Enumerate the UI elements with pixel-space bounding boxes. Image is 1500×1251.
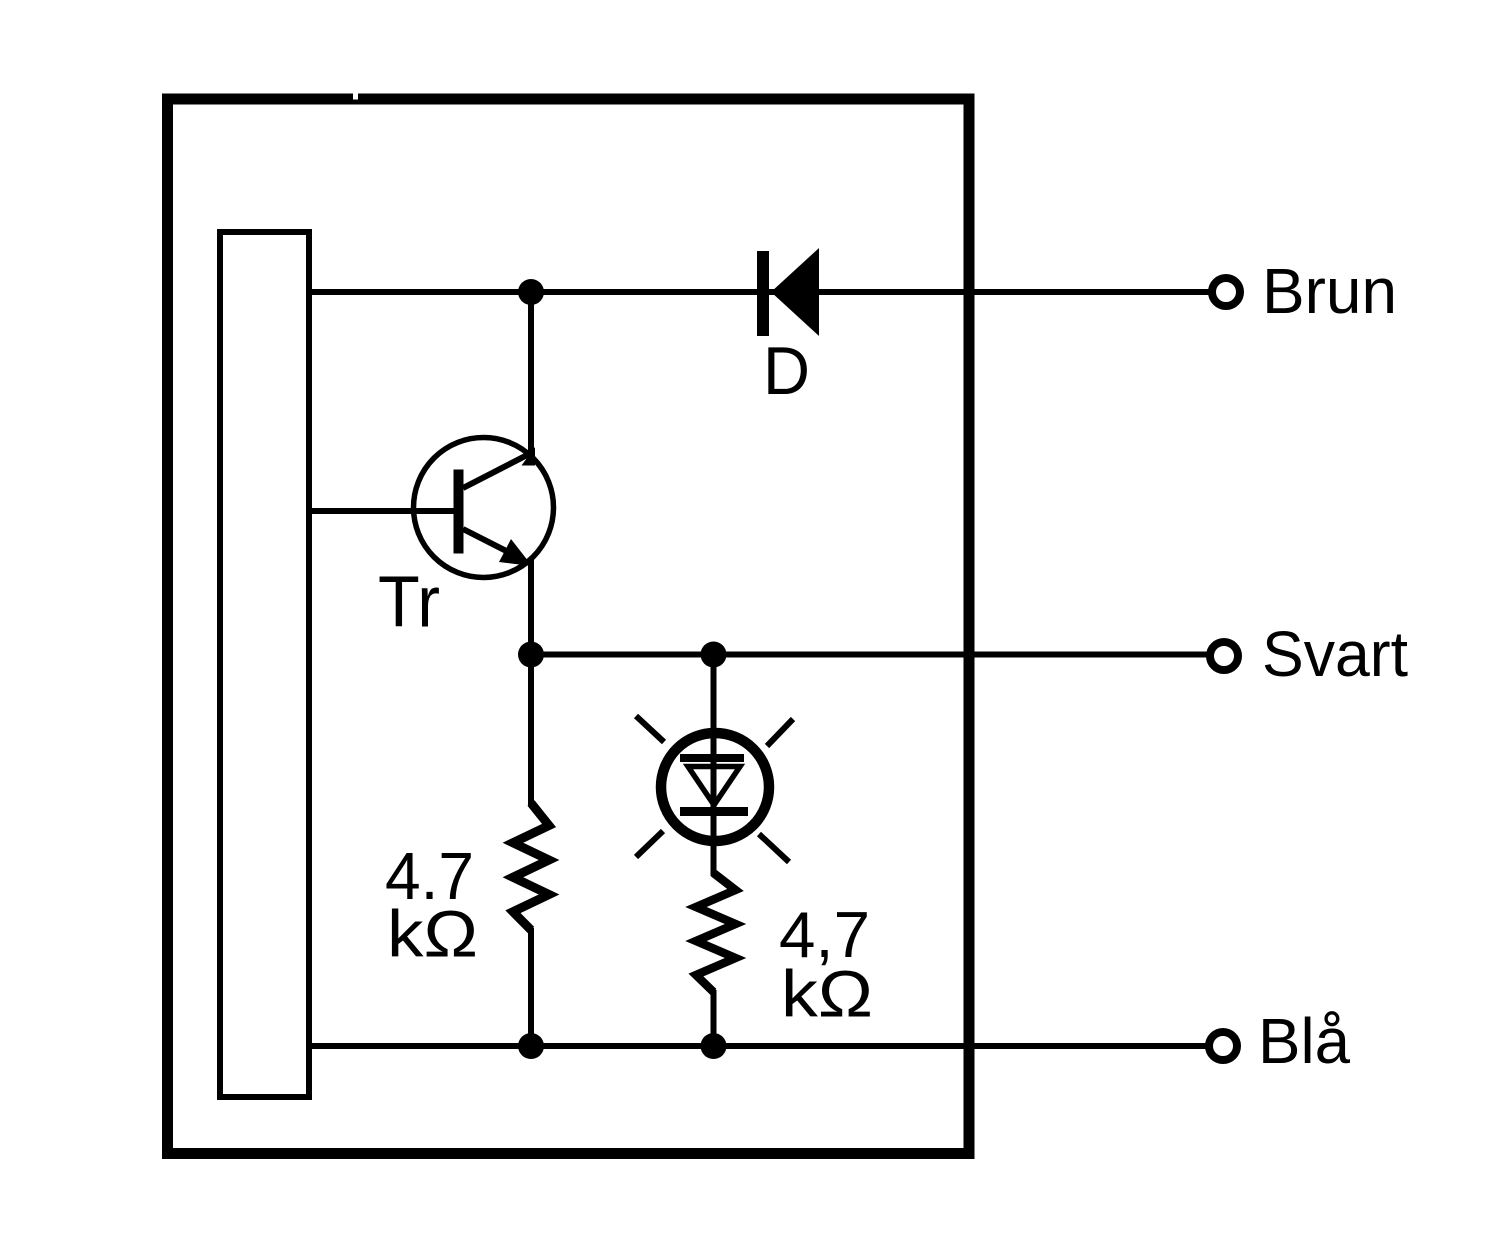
junction at right resistor/Bla: [701, 1033, 727, 1059]
junction at emitter/Svart: [518, 642, 544, 668]
wire LED branch vertical: [711, 655, 717, 877]
LED ray top-left: [636, 716, 664, 742]
LED cathode bar: [680, 807, 748, 816]
diode D triangle: [771, 248, 819, 336]
svg-text:Blå: Blå: [1258, 1005, 1350, 1077]
svg-text:Tr: Tr: [378, 563, 440, 643]
wire collector vertical: [528, 292, 534, 458]
junction at LED/Svart: [701, 642, 727, 668]
transistor emitter diagonal: [463, 529, 522, 559]
resistor right 4.7k zigzag: [696, 873, 736, 992]
terminal Brun: [1212, 278, 1240, 306]
transistor Tr circle: [414, 438, 554, 578]
wire Svart horizontal: [531, 652, 1212, 658]
svg-text:D: D: [763, 333, 810, 409]
LED triangle: [688, 767, 740, 806]
wire Brun horizontal: [311, 289, 1212, 295]
wire emitter vertical: [528, 558, 534, 806]
wire Bla horizontal: [311, 1043, 1212, 1049]
svg-text:kΩ: kΩ: [387, 897, 478, 971]
LED ray bottom-right: [759, 834, 789, 862]
enclosure box: [168, 99, 970, 1154]
junction at left resistor/Bla: [518, 1033, 544, 1059]
transistor base bar: [454, 470, 464, 554]
wire below right resistor: [711, 990, 717, 1046]
LED anode bar: [680, 754, 744, 762]
notch on top border: [353, 93, 358, 100]
sensor element rectangle: [220, 232, 309, 1097]
transistor collector diagonal: [463, 453, 532, 489]
junction at collector/Brun: [518, 279, 544, 305]
terminal Svart: [1210, 642, 1238, 670]
LED circle: [661, 733, 769, 841]
svg-text:Brun: Brun: [1262, 255, 1397, 327]
LED ray bottom-left: [636, 831, 663, 857]
terminal Bla: [1209, 1032, 1237, 1060]
wire base horizontal: [311, 508, 460, 514]
svg-text:kΩ: kΩ: [781, 957, 873, 1031]
diode D cathode bar: [757, 251, 769, 336]
LED ray top-right: [767, 719, 793, 746]
wire below left resistor: [528, 928, 534, 1046]
svg-text:Svart: Svart: [1262, 618, 1408, 690]
resistor left 4.7k zigzag: [513, 803, 549, 930]
transistor emitter arrow: [499, 539, 532, 566]
transistor collector joint wedge: [522, 447, 536, 466]
